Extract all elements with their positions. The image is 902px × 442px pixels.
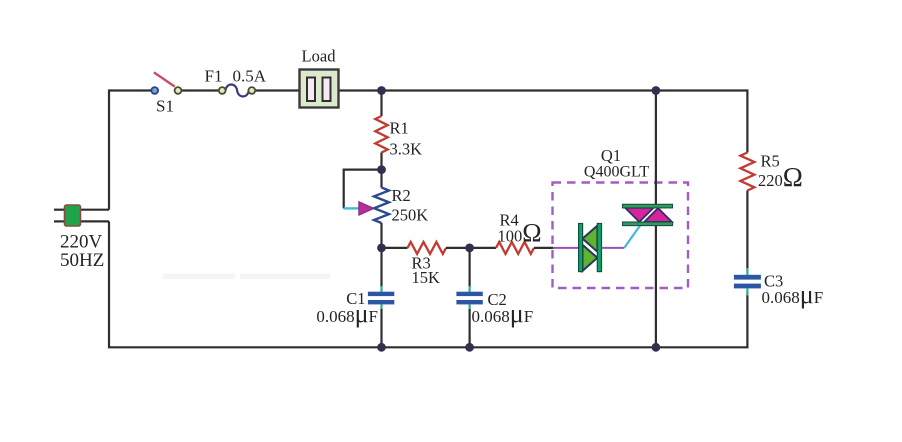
load box: [300, 70, 339, 108]
svg-text:R2: R2: [392, 186, 411, 205]
switch S1: [151, 72, 181, 94]
wire rheostat feedback loop: [344, 170, 382, 209]
wire C1 to bottom rail: [380, 309, 382, 347]
svg-text:R1: R1: [390, 119, 409, 138]
svg-text:15K: 15K: [412, 268, 441, 287]
capacitor C3: [734, 268, 761, 296]
svg-text:R5: R5: [761, 152, 780, 171]
wire top rail Load to right corner: [339, 91, 748, 153]
svg-text:S1: S1: [156, 97, 174, 116]
wiper arrow: [359, 202, 374, 216]
wire C2 junction to R4: [470, 247, 496, 249]
node C1 bottom: [377, 343, 386, 352]
node R2-R3-C1: [377, 244, 386, 253]
node triac bottom: [652, 343, 661, 352]
wire junction to R3: [382, 247, 408, 249]
svg-text:50HZ: 50HZ: [60, 250, 104, 271]
rheostat R2: [374, 188, 389, 224]
svg-text:Q1: Q1: [601, 146, 621, 165]
node C2 bottom: [465, 343, 474, 352]
resistor R3: [408, 242, 447, 254]
triac of Q1: [623, 204, 673, 225]
wire C2 to bottom rail: [469, 309, 471, 347]
wire R4 to Q1 box: [534, 247, 553, 249]
svg-text:Q400GLT: Q400GLT: [584, 164, 649, 181]
svg-text:Load: Load: [302, 47, 337, 66]
wire purple lead into diac: [553, 247, 579, 249]
capacitor C1: [368, 286, 394, 310]
node R1-R2 wiper: [377, 165, 386, 174]
wire junction down to C1: [380, 248, 382, 287]
svg-text:F1: F1: [205, 67, 223, 86]
AC plug source 220V 50HZ: [54, 205, 109, 226]
wire cyan gate lead: [624, 226, 640, 248]
svg-text:0.5A: 0.5A: [233, 67, 267, 86]
resistor R1: [375, 116, 387, 153]
node load-R1 top: [377, 86, 386, 95]
wire junction to R2: [380, 170, 382, 188]
wire R2 to bottom junction: [380, 223, 382, 248]
svg-text:▬▬▬▬ ▬▬▬▬▬: ▬▬▬▬ ▬▬▬▬▬: [163, 263, 330, 283]
wire triac to bottom rail: [655, 226, 657, 348]
svg-text:250K: 250K: [392, 206, 429, 225]
wire wiper cyan segment: [344, 207, 360, 209]
capacitor C2: [456, 286, 482, 310]
wire top junction down to triac: [655, 91, 657, 205]
wire F1 to Load: [255, 89, 299, 91]
wire R3 to C2 junction: [446, 247, 470, 249]
node triac top: [652, 86, 661, 95]
Q1 dashed outline box: [553, 183, 689, 289]
wire purple diac to gate bend: [602, 247, 625, 249]
wire R1 to wiper junction: [380, 153, 382, 170]
fuse F1 0.5A: [219, 85, 255, 97]
node R3-R4-C2: [465, 244, 474, 253]
watermark: [163, 263, 330, 283]
wire top junction to R1: [380, 91, 382, 117]
wire junction down to C2: [469, 248, 471, 287]
resistor R4: [496, 242, 534, 254]
resistor R5: [740, 153, 754, 191]
wire bottom rail: [109, 221, 747, 347]
diac of Q1: [579, 224, 602, 272]
wire R5 to C3: [746, 191, 748, 270]
wire S1 to F1: [181, 89, 219, 91]
svg-text:3.3K: 3.3K: [390, 140, 423, 159]
wire top rail left segment (corner to S1): [109, 91, 152, 210]
